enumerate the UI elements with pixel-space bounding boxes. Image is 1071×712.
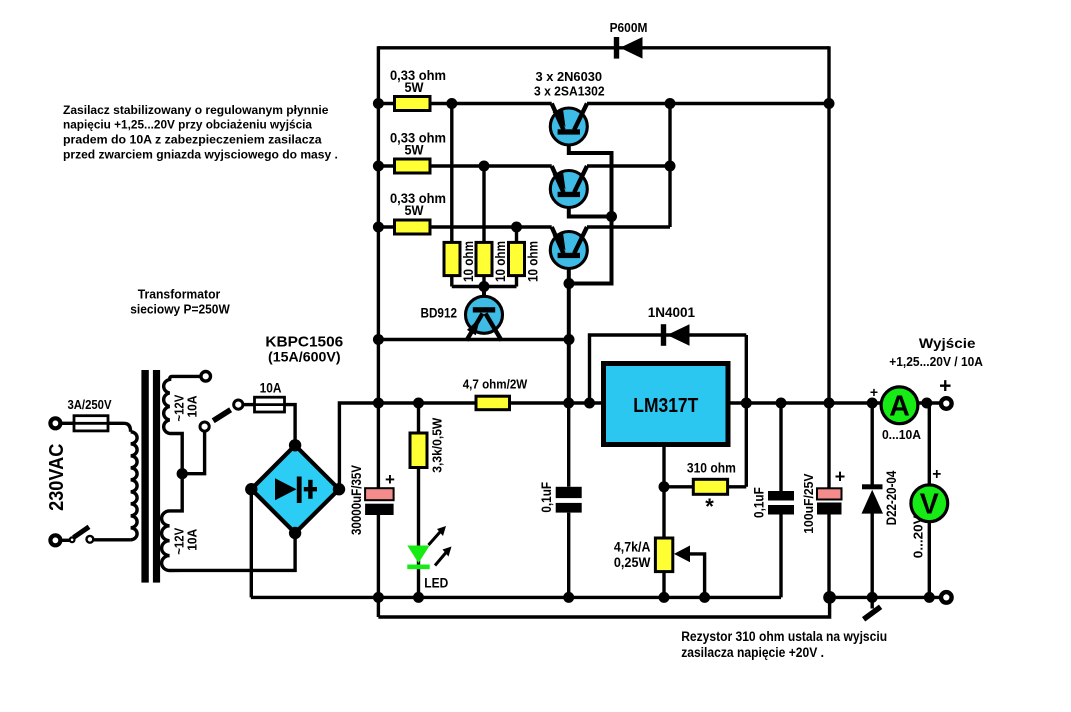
primary winding (131, 432, 138, 540)
wire BD912 base lead (482, 287, 486, 308)
bridge rectifier B1 KBPC1506 (251, 445, 339, 533)
svg-text:+: + (870, 384, 878, 400)
wire left bus (lower through 30000uF) (377, 515, 380, 617)
wire bottom rail 2 (378, 597, 829, 617)
secondary winding top ~12V 10A (164, 376, 201, 473)
fuse F2 10A (255, 397, 285, 412)
switch S1 mains (70, 537, 75, 542)
capacitor C2 0,1uF (input) (567, 403, 570, 487)
svg-text:3A/250V: 3A/250V (67, 398, 112, 412)
node bridge right (333, 483, 345, 495)
resistor R8 310 ohm (664, 485, 693, 488)
resistor R7 4,7 ohm/2W (476, 396, 510, 410)
svg-text:+: + (939, 375, 951, 398)
diode D1 P600M (614, 37, 643, 59)
resistor R2 0,33 ohm 5W (395, 159, 431, 173)
wire fuse to bridge top (285, 405, 296, 446)
svg-text:10A: 10A (185, 395, 200, 418)
wire Q1 base routing (569, 135, 612, 217)
svg-text:P600M: P600M (610, 20, 648, 35)
terminal mains L (50, 418, 60, 428)
svg-text:+: + (385, 470, 395, 489)
svg-text:(15A/600V): (15A/600V) (268, 349, 341, 365)
wire Q2 base routing (569, 198, 612, 217)
wire row 3 right segment (587, 225, 670, 228)
svg-text:A: A (889, 390, 910, 422)
node row3 left bus (373, 222, 384, 233)
terminal output plus (941, 398, 952, 409)
svg-text:0...10A: 0...10A (882, 428, 921, 442)
resistor R3 0,33 ohm 5W (395, 220, 431, 234)
svg-text:10A: 10A (185, 528, 200, 551)
wire BD912 emitter-collector rail (378, 338, 569, 341)
node row3 10ohm C (511, 222, 522, 233)
wire fuse to primary coil (108, 423, 131, 432)
svg-text:0,1uF: 0,1uF (752, 487, 767, 518)
wire Q3 base down to main rail (567, 259, 571, 404)
terminal unused tap (201, 372, 211, 382)
LED D4 (417, 468, 420, 598)
wire selector to fuse (243, 403, 256, 406)
node bridge top (289, 439, 301, 451)
terminal mains N (50, 535, 60, 545)
svg-text:pradem do 10A z zabezpieczeni: pradem do 10A z zabezpieczeniem zasilacz… (63, 133, 322, 147)
capacitor C3 0,1uF (output) (779, 403, 782, 491)
node row2 collector bus (665, 161, 676, 172)
node main rail V branch (921, 398, 932, 409)
node bridge left (245, 483, 257, 495)
wire 10 ohm common bottom (452, 285, 517, 288)
svg-text:100uF/25V: 100uF/25V (801, 473, 816, 534)
svg-text:Wyjście: Wyjście (919, 336, 976, 351)
svg-text:Transformator: Transformator (138, 287, 221, 302)
wire center tap to selector (182, 431, 204, 473)
svg-text:230VAC: 230VAC (46, 444, 68, 511)
meter A ammeter 0...10A (881, 387, 918, 424)
resistor R6 10 ohm (509, 242, 525, 275)
svg-text:310 ohm: 310 ohm (687, 461, 736, 476)
svg-text:4,7k/A: 4,7k/A (614, 540, 651, 555)
svg-text:3 x 2N6030: 3 x 2N6030 (536, 69, 603, 84)
node bridge bottom (289, 527, 301, 539)
svg-text:0,1uF: 0,1uF (539, 482, 554, 513)
transistor Q4 BD912 (466, 296, 503, 340)
fuse F1 3A/250V (74, 416, 108, 431)
svg-text:zasilacza napięcie +20V .: zasilacza napięcie +20V . (681, 645, 824, 660)
wire mains top lead (61, 422, 77, 425)
wire row 2 right segment (587, 164, 670, 167)
node BD912 rail left (373, 334, 384, 345)
svg-text:5W: 5W (405, 202, 425, 218)
svg-text:10 ohm: 10 ohm (461, 241, 476, 282)
node row2 left bus (373, 161, 384, 172)
node main rail C3 (776, 398, 787, 409)
wire left bus (upper) (377, 46, 380, 488)
node rail1 right bus (823, 591, 836, 604)
node main rail left bus (373, 398, 384, 409)
wire right bus (lower below 100uF) (827, 515, 830, 598)
transistor Q1 (2N6030/2SA1302) (550, 104, 587, 146)
wire base bus down to Q3 base (569, 217, 612, 284)
svg-text:0,25W: 0,25W (614, 555, 651, 570)
node rail1 LED (413, 592, 424, 603)
node rail1 left bus (373, 592, 384, 603)
node main rail LED branch (413, 398, 424, 409)
terminal output minus (941, 592, 952, 603)
svg-text:5W: 5W (405, 142, 425, 158)
wire row 1 right segment (587, 102, 829, 105)
wire 10 ohm branch C vertical (515, 227, 518, 244)
svg-text:5W: 5W (405, 79, 425, 95)
wire 10 ohm branch A vertical (450, 104, 453, 244)
svg-text:*: * (705, 494, 714, 519)
wire row 1 left segment (378, 102, 551, 105)
svg-text:0...20V: 0...20V (912, 515, 926, 559)
node main rail 1N4001 (584, 398, 595, 409)
svg-text:+: + (835, 467, 846, 487)
svg-text:3 x 2SA1302: 3 x 2SA1302 (534, 83, 605, 98)
node base bus join (606, 211, 617, 222)
wire LM317 ADJ lead (662, 445, 665, 539)
transistor Q3 (2N6030/2SA1302) (550, 227, 587, 269)
resistor R9 3,3k/0,5W (417, 403, 420, 433)
svg-text:4,7 ohm/2W: 4,7 ohm/2W (463, 377, 528, 391)
wire 10 ohm branch B vertical (482, 166, 485, 244)
svg-text:30000uF/35V: 30000uF/35V (349, 465, 364, 535)
svg-text:sieciowy P=250W: sieciowy P=250W (130, 302, 230, 317)
wire collector bus x=670 (668, 104, 671, 228)
node main rail C2 (563, 398, 574, 409)
node rail1 C2 (563, 592, 574, 603)
node row1 collector bus (665, 98, 676, 109)
svg-text:+: + (932, 466, 941, 483)
wire bottom ground rail 1 (251, 596, 781, 599)
capacitor C1 30000uF/35V (365, 488, 394, 500)
switch S3 voltage selector (200, 422, 209, 431)
node row2 10ohm B (479, 161, 490, 172)
node row1 right bus (824, 98, 835, 109)
svg-text:LED: LED (424, 576, 448, 591)
node 10ohm common (479, 281, 490, 292)
transformer T1 core (141, 370, 148, 583)
resistor R1 0,33 ohm 5W (395, 97, 431, 111)
node rail1 V (924, 592, 935, 603)
node Q3 base join (564, 278, 575, 289)
transistor Q2 (2N6030/2SA1302) (550, 166, 587, 208)
wire main rail input side (339, 403, 603, 489)
switch S2 short-to-mass lever (871, 597, 874, 608)
svg-text:D22-20-04: D22-20-04 (884, 470, 899, 525)
svg-text:+1,25...20V / 10A: +1,25...20V / 10A (889, 354, 983, 369)
diode D3 D22-20-04 (871, 403, 874, 485)
svg-text:przed zwarciem gniazda wyjsci: przed zwarciem gniazda wyjsciowego do ma… (63, 148, 338, 162)
wire right bus (upper) (827, 46, 830, 488)
node BD912 rail right (564, 334, 575, 345)
svg-text:napięciu +1,25...20V przy obci: napięciu +1,25...20V przy obciażeniu wyj… (63, 118, 312, 132)
node row1 10ohm A (446, 98, 457, 109)
svg-text:Rezystor 310 ohm ustala na wyj: Rezystor 310 ohm ustala na wyjsciu (681, 629, 887, 644)
node rail1 wiper (699, 592, 710, 603)
label circuit description (63, 103, 338, 162)
meter V voltmeter 0...20V (928, 403, 931, 485)
svg-text:LM317T: LM317T (633, 394, 698, 417)
node ADJ 310ohm (659, 481, 670, 492)
potentiometer P1 4,7k/A 0,25W (655, 538, 672, 572)
svg-text:10 ohm: 10 ohm (526, 241, 541, 282)
capacitor C4 100uF/25V (817, 488, 842, 499)
wire top rail (378, 46, 829, 49)
svg-text:3,3k/0,5W: 3,3k/0,5W (430, 418, 444, 473)
wire primary bottom to switch (94, 538, 131, 541)
node center tap (177, 468, 188, 479)
svg-text:10 ohm: 10 ohm (493, 241, 508, 282)
svg-text:BD912: BD912 (421, 305, 458, 320)
wire main rail output side (728, 401, 941, 404)
resistor R4 10 ohm (444, 242, 460, 275)
wire row 3 left segment (378, 225, 551, 228)
node rail1 D22 (867, 592, 878, 603)
node main rail right bus (824, 398, 835, 409)
svg-text:10A: 10A (260, 381, 282, 396)
regulator U1 LM317T (604, 364, 729, 445)
wire row 2 left segment (378, 164, 551, 167)
node rail1 pot (659, 592, 670, 603)
diode D2 1N4001 (590, 335, 747, 403)
resistor R5 10 ohm (476, 242, 492, 275)
svg-text:Zasilacz stabilizowany o regul: Zasilacz stabilizowany o regulowanym pły… (63, 103, 328, 117)
label footnote (681, 629, 887, 660)
node row1 left bus (373, 98, 384, 109)
svg-text:1N4001: 1N4001 (648, 304, 696, 320)
node main rail D22 (867, 398, 878, 409)
wire bridge left vertex down (250, 489, 253, 597)
node main rail 1N4001 right (741, 398, 752, 409)
secondary winding bottom ~12V 10A (162, 474, 295, 571)
